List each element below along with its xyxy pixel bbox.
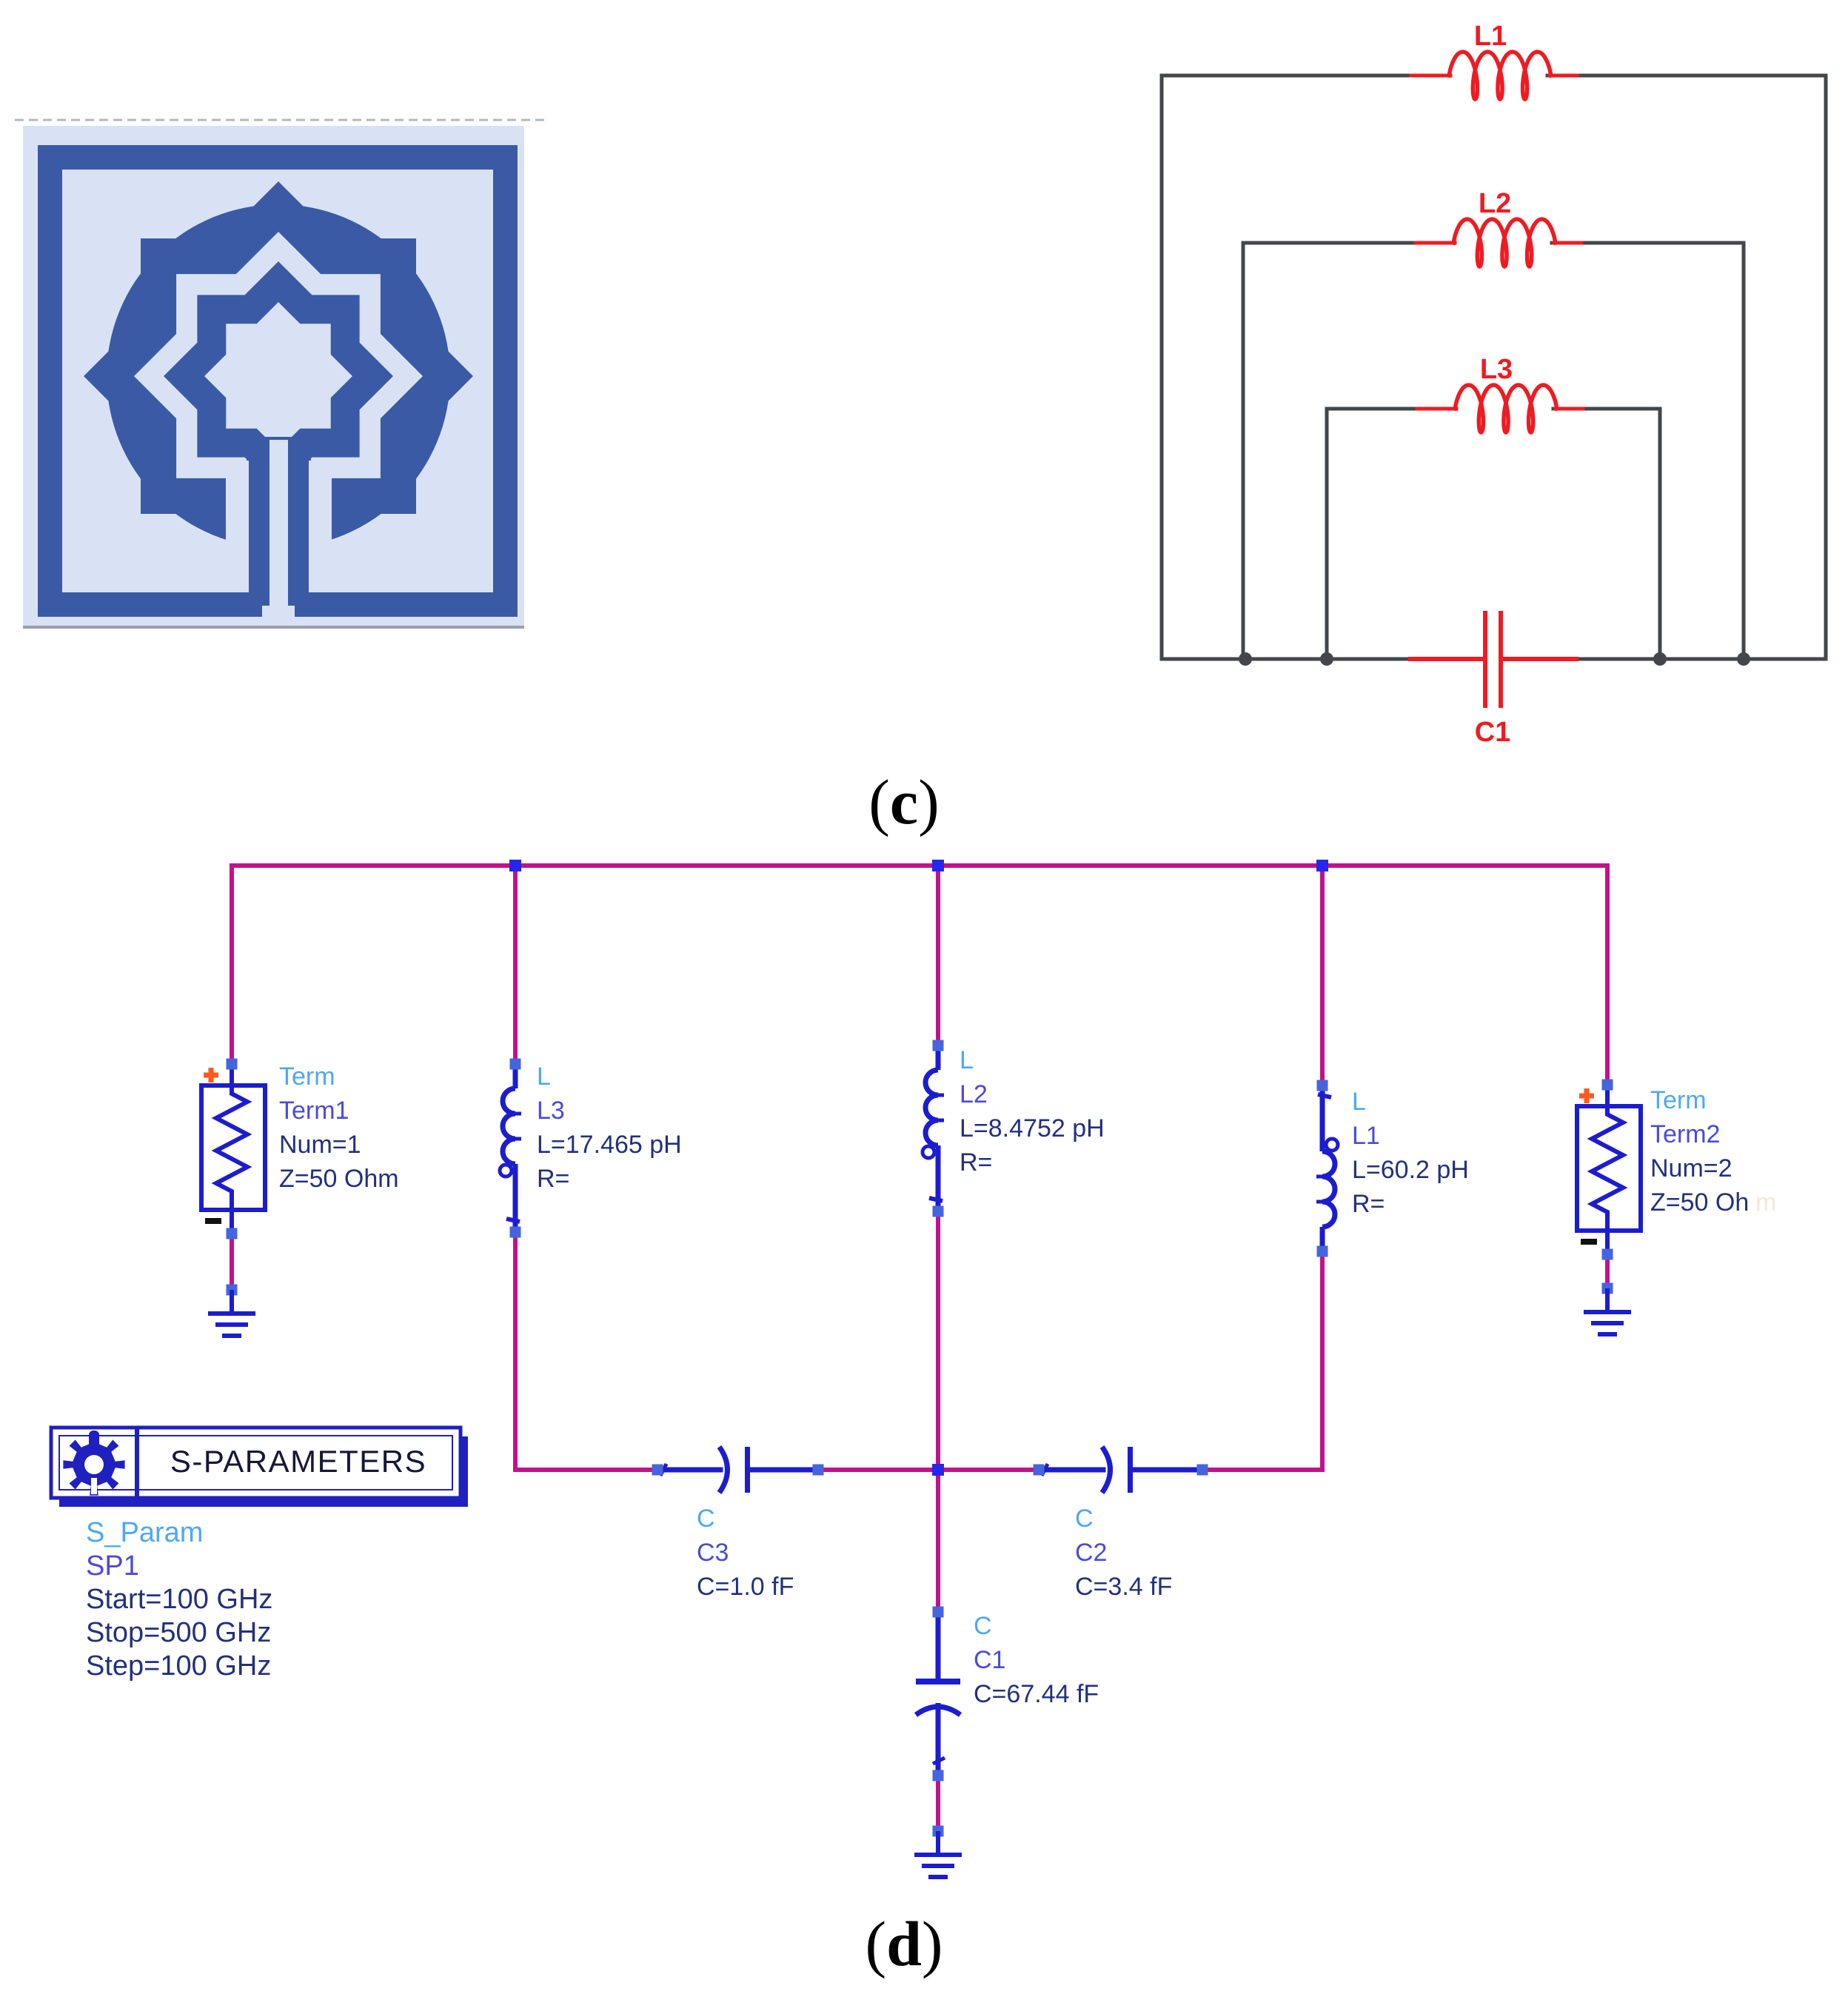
dashed guide line [15,119,546,121]
svg-text:S-PARAMETERS: S-PARAMETERS [170,1444,426,1479]
feed line slots [269,440,288,606]
svg-text:L=60.2 pH: L=60.2 pH [1352,1156,1469,1184]
svg-text:Num=1: Num=1 [279,1131,361,1159]
svg-text:C=67.44 fF: C=67.44 fF [974,1680,1099,1708]
svg-text:(c): (c) [868,766,939,837]
outer circular patch with star tips [107,204,450,548]
substrate [23,126,524,626]
wire junctions [509,860,521,871]
inductor L2 [923,1040,944,1217]
ground (Term2) [1602,1283,1613,1294]
svg-text:Term: Term [279,1063,335,1091]
junction dots on common wire [1239,652,1252,666]
svg-text:Term2: Term2 [1650,1120,1720,1148]
svg-text:L=17.465 pH: L=17.465 pH [537,1131,682,1159]
inductor L1 [1411,52,1577,99]
wire L3 drop [513,866,518,1066]
feed base [247,437,311,461]
ground (C1) [933,1826,944,1837]
svg-text:Z=50 Ohm: Z=50 Ohm [279,1165,399,1193]
svg-text:L1: L1 [1352,1122,1380,1150]
capacitor C1 [1410,613,1576,706]
capacitor C1 (shunt) [916,1607,960,1781]
wire middle loop (L2 branch) [1243,243,1444,659]
svg-text:C: C [1075,1505,1094,1533]
svg-text:Num=2: Num=2 [1650,1154,1732,1182]
wire outer loop (L1 branch) [1162,76,1440,659]
svg-text:C2: C2 [1075,1539,1107,1567]
S-PARAMETERS controller [51,1428,468,1507]
svg-text:Stop=500 GHz: Stop=500 GHz [86,1617,271,1648]
svg-text:C: C [697,1505,715,1533]
svg-text:L=8.4752 pH: L=8.4752 pH [960,1114,1105,1142]
svg-text:L3: L3 [537,1097,565,1125]
wire Term1 drop [230,866,234,1066]
capacitor C2 [1034,1447,1208,1493]
star slot ring [134,232,423,521]
wire C3 to node [818,1468,938,1472]
middle star ring [164,261,393,491]
wire inner loop (L3 branch) [1327,409,1446,659]
top bus wire [230,863,1610,868]
svg-text:Term1: Term1 [279,1097,349,1125]
svg-text:m: m [1755,1188,1776,1217]
coplanar feed strips [249,438,269,606]
central star patch [204,302,352,450]
wire L3 to C3 [515,1231,657,1470]
wire L2 to C1 [936,1210,940,1614]
svg-text:Term: Term [1650,1086,1707,1114]
wire L1 drop [1320,866,1325,1087]
svg-text:R=: R= [537,1165,569,1193]
svg-text:R=: R= [1352,1190,1385,1218]
svg-text:C1: C1 [1475,717,1511,748]
feed notch in frame [262,606,295,618]
svg-text:C: C [974,1612,992,1640]
svg-text:S_Param: S_Param [86,1517,203,1548]
svg-text:C=1.0 fF: C=1.0 fF [697,1573,794,1601]
svg-text:C=3.4 fF: C=3.4 fF [1075,1573,1172,1601]
square ring frame [38,145,518,617]
wire node to C2 [938,1468,1039,1472]
svg-text:(d): (d) [865,1908,943,1979]
ADS schematic [51,860,1776,1877]
svg-text:L: L [537,1063,551,1091]
inductor L2 [1416,219,1581,267]
inductor L3 [1417,385,1583,432]
wire Term1 to ground [230,1234,234,1292]
svg-text:C3: C3 [697,1539,729,1567]
svg-text:Step=100 GHz: Step=100 GHz [86,1650,271,1682]
svg-text:Start=100 GHz: Start=100 GHz [86,1584,272,1615]
metamaterial unit cell panel [15,120,546,627]
terminal Term1 [201,1059,265,1239]
svg-text:L: L [960,1046,974,1074]
inductor L1 (rotated) [1316,1080,1338,1257]
equivalent LC circuit [1162,21,1826,748]
svg-text:Z=50 Oh: Z=50 Oh [1650,1188,1749,1217]
svg-text:C1: C1 [974,1646,1005,1674]
wire C1 to ground [936,1776,940,1833]
wire Term2 drop [1605,866,1610,1087]
svg-text:L3: L3 [1480,354,1513,385]
inductor L3 [500,1059,521,1238]
svg-text:SP1: SP1 [86,1550,139,1582]
wire C2 to L1 [1202,1250,1322,1470]
svg-text:R=: R= [960,1148,992,1177]
capacitor C3 [652,1447,824,1493]
wire Term2 to ground [1605,1248,1610,1288]
svg-text:L: L [1352,1088,1366,1116]
wire L2 drop [936,866,940,1048]
ground (Term1) [227,1285,238,1296]
terminal Term2 [1577,1080,1641,1260]
svg-text:L2: L2 [1479,188,1511,219]
svg-text:L2: L2 [960,1080,988,1108]
svg-text:L1: L1 [1474,21,1507,52]
